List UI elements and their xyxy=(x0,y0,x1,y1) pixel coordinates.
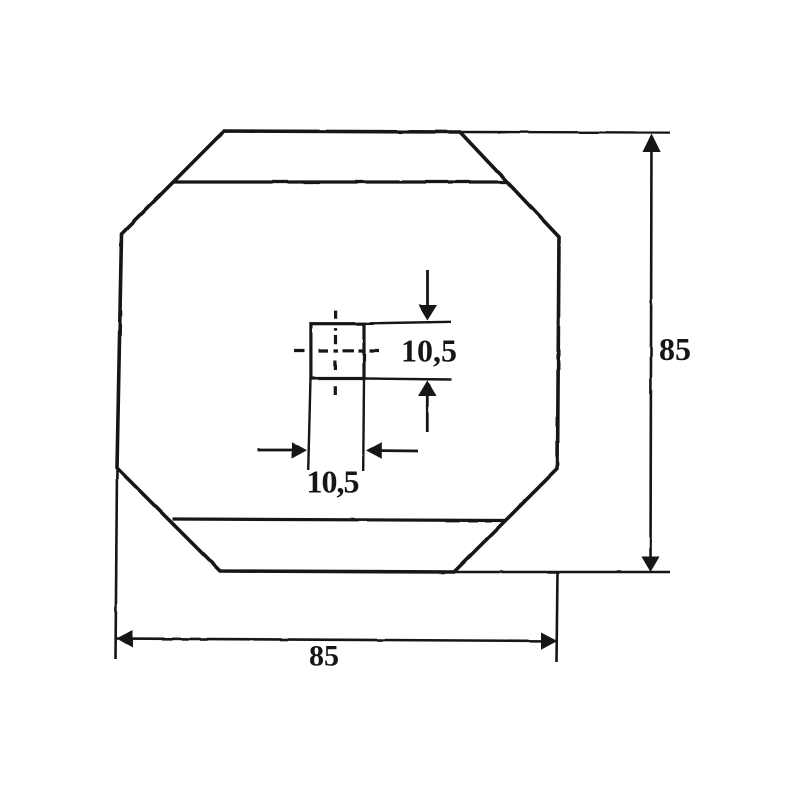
center square hole xyxy=(311,324,364,379)
extension line: right edge extended down for 85 dim xyxy=(557,572,558,662)
dimension arrow right (10,5 horizontal, left side) xyxy=(258,449,293,452)
centerline vertical (dash-dot) xyxy=(334,311,338,395)
svg-text:10,5: 10,5 xyxy=(401,333,457,369)
arrowhead left (85 bottom, left) xyxy=(117,630,133,648)
arrowhead right xyxy=(292,442,308,459)
dimension arrow down (10,5 vertical, upper) xyxy=(426,270,429,306)
octagonal plate outline xyxy=(117,131,559,572)
arrowhead left xyxy=(366,442,382,459)
arrowhead up xyxy=(418,381,437,397)
svg-text:85: 85 xyxy=(659,331,691,367)
horizontal dimension line 85 (bottom) xyxy=(117,639,557,642)
dimension arrow left (10,5 horizontal, right side) xyxy=(382,449,419,452)
svg-text:10,5: 10,5 xyxy=(307,464,359,500)
extension line: bottom edge extended right for 85 dim xyxy=(454,571,670,573)
inner bottom fold line xyxy=(173,519,506,521)
arrowhead down xyxy=(418,305,437,321)
extension line: square left side extended down xyxy=(308,379,310,471)
dimension arrow up (10,5 vertical, lower) xyxy=(426,396,429,432)
extension line: square top edge extended right xyxy=(364,322,451,324)
arrowhead down (85 right, bottom) xyxy=(641,557,659,573)
svg-text:85: 85 xyxy=(309,640,339,673)
centerline horizontal (dash-dot) xyxy=(294,349,379,353)
inner top fold line xyxy=(174,180,507,183)
arrowhead right (85 bottom, right) xyxy=(541,633,557,650)
extension line: square bottom edge extended right xyxy=(364,379,451,380)
arrowhead up (85 right, top) xyxy=(643,134,661,153)
extension line: left edge extended down for 85 dim xyxy=(116,468,118,659)
extension line: top edge extended right for 85 dim xyxy=(460,131,670,134)
extension line: square right side extended down xyxy=(362,379,365,472)
vertical dimension line 85 (right) xyxy=(651,136,652,569)
